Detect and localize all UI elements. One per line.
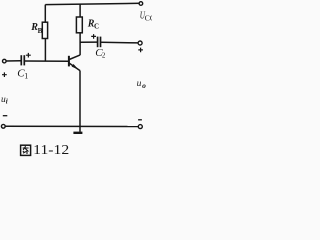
transistor V base bar bbox=[68, 56, 70, 67]
label C1 bbox=[17, 68, 28, 81]
transistor V collector lead bbox=[69, 55, 80, 60]
label uo bbox=[137, 79, 147, 90]
wire input to C1 bbox=[6, 60, 21, 62]
capacitor C1 bbox=[21, 55, 24, 65]
ground bbox=[73, 126, 82, 132]
caption figure 11-12 bbox=[21, 142, 70, 157]
resistor RB bbox=[42, 22, 47, 38]
svg-text:B: B bbox=[38, 27, 43, 35]
label plus input bottom bbox=[2, 72, 7, 77]
svg-text:i: i bbox=[6, 97, 8, 105]
wire RC top bbox=[79, 4, 81, 17]
label minus right bbox=[138, 119, 142, 121]
label UCC bbox=[140, 11, 155, 23]
svg-text:C: C bbox=[94, 22, 99, 30]
svg-text:o: o bbox=[142, 81, 146, 90]
node collector bbox=[80, 41, 97, 43]
wire RB top bbox=[44, 5, 46, 23]
wire emitter vertical bbox=[79, 71, 81, 127]
wire C1 to base bbox=[25, 60, 69, 62]
svg-text:11-12: 11-12 bbox=[33, 142, 69, 157]
transistor V emitter lead bbox=[69, 63, 80, 71]
wire C2 to output bbox=[101, 41, 138, 44]
wire top rail bbox=[45, 3, 141, 4]
label plus output bbox=[138, 48, 143, 53]
wire RC bottom / collector vertical bbox=[79, 33, 81, 55]
label RC bbox=[87, 19, 99, 31]
svg-text:2: 2 bbox=[102, 51, 106, 59]
svg-text:u: u bbox=[137, 79, 142, 89]
label plus C2 bbox=[91, 34, 96, 39]
terminal bottom right bbox=[138, 125, 142, 129]
transistor V emitter arrow bbox=[72, 64, 79, 70]
resistor RC bbox=[76, 17, 82, 33]
capacitor C2 bbox=[98, 37, 101, 48]
terminal input bbox=[3, 59, 7, 63]
terminal bottom left bbox=[1, 124, 5, 128]
label minus left bbox=[3, 115, 8, 117]
wire bottom rail bbox=[5, 125, 138, 127]
svg-text:CC: CC bbox=[145, 14, 152, 23]
label C2 bbox=[95, 47, 106, 59]
terminal UCC bbox=[139, 2, 143, 6]
label ui bbox=[1, 95, 8, 105]
label plus C1 bbox=[26, 53, 31, 58]
terminal output top bbox=[138, 41, 142, 45]
wire RB bottom bbox=[44, 39, 46, 62]
svg-text:1: 1 bbox=[24, 71, 28, 80]
label RB bbox=[30, 22, 42, 35]
